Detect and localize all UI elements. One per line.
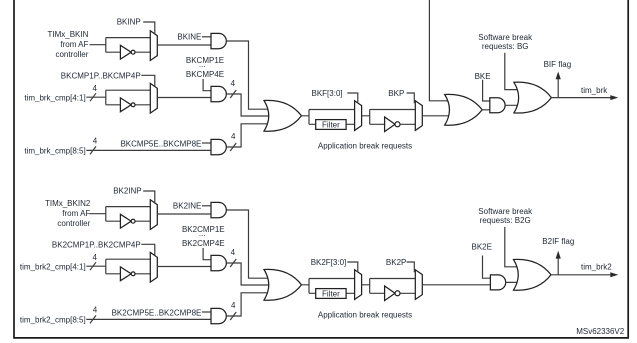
mux filter select BKF[3:0] <box>355 101 362 131</box>
svg-text:TIMx_BKIN2: TIMx_BKIN2 <box>45 199 91 208</box>
wire TIMx_BKIN2 input <box>90 213 106 215</box>
bus slash 4 on tim_brk_cmp[4:1] <box>90 93 96 101</box>
wire software break request BG <box>505 53 522 90</box>
svg-text:BK2CMP1P..BK2CMP4P: BK2CMP1P..BK2CMP4P <box>52 240 141 249</box>
and-gate BKE <box>490 98 505 113</box>
wire BKF[3:0] select <box>347 93 358 103</box>
svg-text:BK2CMP4E: BK2CMP4E <box>182 239 225 248</box>
wire BKINP select <box>143 22 155 34</box>
svg-text:BKINE: BKINE <box>177 33 201 42</box>
mux BKINP polarity select <box>150 31 157 61</box>
mux BK2INP polarity select <box>150 200 157 230</box>
wire system OR to BKE gate <box>482 109 492 111</box>
mux output polarity select BKP <box>415 101 422 131</box>
bus slash 4 on tim_brk2_cmp[4:1] <box>90 262 96 270</box>
svg-text:4: 4 <box>93 306 98 315</box>
svg-text:Software break: Software break <box>478 33 533 42</box>
inverter BKINP path <box>120 45 131 59</box>
wire mux output to BK2INE gate <box>157 213 211 215</box>
wire BKE enable <box>483 80 490 101</box>
wire BKP select <box>407 93 415 103</box>
bus slash 4 on tim_brk_cmp[8:5] <box>90 146 96 154</box>
or-gate final break OR BIF <box>514 82 552 113</box>
svg-text:B2IF flag: B2IF flag <box>542 237 574 246</box>
svg-text:MSv62336V2: MSv62336V2 <box>576 327 625 336</box>
svg-text:BK2P: BK2P <box>386 258 406 267</box>
wire polarity split BKINP <box>106 38 151 53</box>
wire break input from top net <box>429 0 452 101</box>
wire BK2CMP4E enable <box>203 248 211 260</box>
wire BK2CMP5E enable <box>202 311 211 313</box>
svg-text:4: 4 <box>231 132 236 141</box>
svg-text:4: 4 <box>92 253 97 262</box>
wire BKINE enable <box>202 36 211 38</box>
svg-text:BKINP: BKINP <box>117 18 141 27</box>
svg-text:controller: controller <box>55 50 88 59</box>
svg-text:from AF: from AF <box>62 209 90 218</box>
mux filter select BK2F[3:0] <box>355 270 362 300</box>
svg-text:BK2INP: BK2INP <box>113 187 141 196</box>
wire BKCMP4P select <box>141 75 155 87</box>
filter block BK2F <box>316 289 346 299</box>
svg-text:tim_brk: tim_brk <box>581 86 608 95</box>
wire cmp mux output <box>157 97 211 99</box>
inverter BKP path <box>385 117 395 132</box>
arrow BIF flag <box>556 72 561 80</box>
svg-text:Application break requests: Application break requests <box>318 141 412 150</box>
svg-text:4: 4 <box>231 248 236 257</box>
or-gate break request combiner 1 <box>264 100 302 131</box>
wire output mux to system OR <box>422 115 452 117</box>
or-gate final break OR B2IF <box>514 259 552 290</box>
wire polarity split BKCMP4P <box>106 90 151 105</box>
wire cmp[8:5] gate output to OR <box>226 293 269 316</box>
arrow tim_brk2 <box>610 272 618 277</box>
and-gate BK2E <box>490 275 505 290</box>
bus slash 4 on tim_brk2_cmp[8:5] <box>90 315 96 323</box>
filter block BKF <box>316 120 346 130</box>
wire BK2P select <box>407 262 415 272</box>
wire cmp[8:5] gate output to OR <box>226 124 269 147</box>
wire tim_brk output <box>551 97 611 99</box>
svg-text:BK2INE: BK2INE <box>173 202 201 211</box>
wire TIMx_BKIN input <box>90 44 106 46</box>
wire filter mux to polarity mux <box>362 279 416 294</box>
wire BK2INE enable <box>202 205 211 207</box>
and-gate U2A BK2INE <box>211 202 226 217</box>
wire tim_brk_cmp[4:1] input <box>86 96 106 98</box>
wire tim_brk2_cmp[8:5] input <box>86 318 211 320</box>
wire OR output to filter stage <box>302 110 355 125</box>
wire polarity split BK2CMP4P <box>106 259 151 274</box>
svg-text:Filter: Filter <box>322 120 340 129</box>
wire cmp[4:1] gate output to OR <box>226 94 269 116</box>
wire output mux2 to BK2E gate <box>422 284 490 286</box>
svg-text:BIF flag: BIF flag <box>544 60 572 69</box>
or-gate system break OR <box>445 94 483 125</box>
wire BK2E enable <box>483 256 491 279</box>
bus slash 4 after cmp[4:1] gate <box>230 259 236 267</box>
wire tim_brk2 output <box>551 274 611 276</box>
svg-text:tim_brk2_cmp[8:5]: tim_brk2_cmp[8:5] <box>20 315 86 324</box>
and-gate BKCMP5E..BKCMP8E <box>211 139 226 154</box>
inverter BK2CMP4P path <box>120 267 131 281</box>
bus slash 4 after cmp[8:5] gate <box>230 143 236 151</box>
svg-text:BKF[3:0]: BKF[3:0] <box>312 89 343 98</box>
inverter BKCMP4P path <box>120 98 131 112</box>
wire polarity split BK2INP <box>106 207 151 222</box>
mux output polarity select BK2P <box>415 270 422 300</box>
svg-text:Application break requests: Application break requests <box>318 310 412 319</box>
and-gate U1A BKINE <box>211 33 226 48</box>
svg-text:tim_brk_cmp[8:5]: tim_brk_cmp[8:5] <box>24 146 85 155</box>
svg-text:BKCMP1P..BKCMP4P: BKCMP1P..BKCMP4P <box>61 71 141 80</box>
wire BK2INE gate output to OR <box>226 210 269 278</box>
wire BK2CMP4P select <box>141 244 155 256</box>
svg-text:BKCMP4E: BKCMP4E <box>186 70 224 79</box>
svg-text:...: ... <box>199 229 206 238</box>
arrow tim_brk <box>610 95 618 100</box>
svg-text:BKCMP5E..BKCMP8E: BKCMP5E..BKCMP8E <box>120 139 201 148</box>
svg-text:4: 4 <box>93 137 98 146</box>
wire BK2INP select <box>143 191 155 203</box>
wire BKINE gate output to OR <box>226 41 269 109</box>
and-gate BK2CMP5E..BK2CMP8E <box>211 308 226 323</box>
wire B2IF flag <box>557 258 559 275</box>
svg-text:Filter: Filter <box>322 289 340 298</box>
svg-text:4: 4 <box>231 79 236 88</box>
wire OR output to filter stage <box>302 279 355 294</box>
mux BK2CMP4P polarity select <box>150 252 157 282</box>
bus slash 4 after cmp[8:5] gate <box>230 312 236 320</box>
inverter BK2INP path <box>120 214 131 228</box>
and-gate BKCMP1E..BKCMP4E <box>211 86 226 101</box>
svg-text:...: ... <box>199 60 206 69</box>
svg-text:BK2F[3:0]: BK2F[3:0] <box>311 258 347 267</box>
wire filter mux to polarity mux <box>362 110 416 125</box>
svg-text:BKP: BKP <box>388 89 404 98</box>
svg-text:4: 4 <box>231 301 236 310</box>
wire BK2F[3:0] select <box>347 262 358 272</box>
svg-text:BK2CMP5E..BK2CMP8E: BK2CMP5E..BK2CMP8E <box>112 308 202 317</box>
svg-text:tim_brk2: tim_brk2 <box>581 263 612 272</box>
svg-text:4: 4 <box>92 84 97 93</box>
svg-text:Software break: Software break <box>478 207 533 216</box>
wire BIF flag <box>557 79 559 98</box>
or-gate break request combiner 2 <box>264 269 302 300</box>
inverter BK2P path <box>385 286 395 301</box>
svg-text:BK2E: BK2E <box>472 242 492 251</box>
arrow B2IF flag <box>556 251 561 259</box>
wire BKCMP5E enable <box>202 142 211 144</box>
wire tim_brk_cmp[8:5] input <box>86 149 211 151</box>
wire software break request B2G <box>505 227 522 267</box>
wire mux output to BKINE gate <box>157 44 211 46</box>
wire BKCMP4E enable <box>203 79 211 91</box>
wire cmp[4:1] gate output to OR <box>226 263 269 285</box>
wire BK2E gate to final OR <box>506 281 522 283</box>
svg-text:TIMx_BKIN: TIMx_BKIN <box>47 30 88 39</box>
wire BKE gate to final OR <box>505 104 522 106</box>
svg-text:BKE: BKE <box>475 72 491 81</box>
wire tim_brk2_cmp[4:1] input <box>86 265 106 267</box>
bus slash 4 after cmp[4:1] gate <box>230 90 236 98</box>
wire cmp mux output <box>157 266 211 268</box>
svg-text:tim_brk2_cmp[4:1]: tim_brk2_cmp[4:1] <box>20 262 86 271</box>
svg-text:controller: controller <box>57 219 90 228</box>
svg-text:requests: B2G: requests: B2G <box>480 216 531 225</box>
mux BKCMP4P polarity select <box>150 83 157 113</box>
svg-text:requests: BG: requests: BG <box>482 42 529 51</box>
and-gate BK2CMP1E..BK2CMP4E <box>211 255 226 270</box>
svg-text:tim_brk_cmp[4:1]: tim_brk_cmp[4:1] <box>24 93 85 102</box>
svg-text:from AF: from AF <box>60 40 88 49</box>
